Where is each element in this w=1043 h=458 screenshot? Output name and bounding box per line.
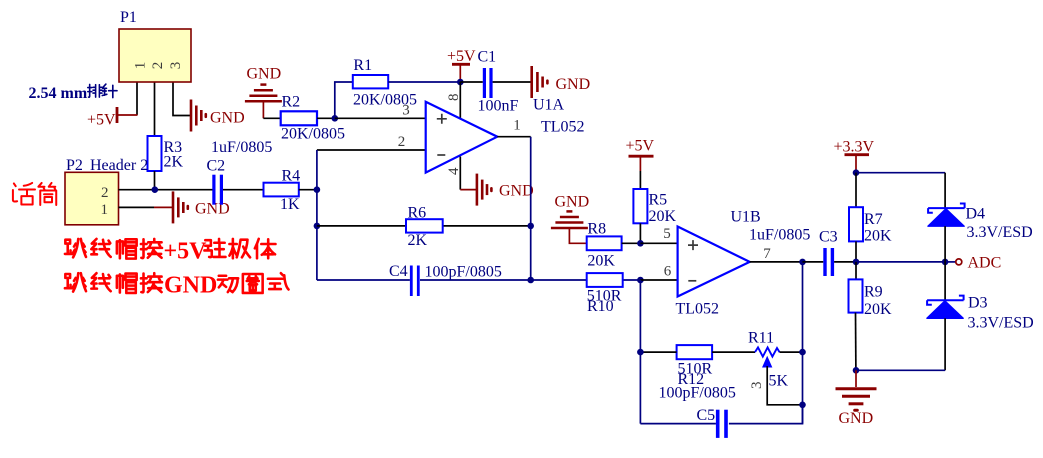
svg-text:R1: R1 [353,57,372,74]
svg-text:C5: C5 [697,407,716,424]
power +5V at U1A [447,48,476,82]
svg-text:R9: R9 [864,284,883,301]
wire pin6 [640,279,677,281]
svg-text:GND: GND [556,76,591,93]
svg-text:R7: R7 [864,211,883,228]
text red note line 2 [65,273,289,299]
node junction pin6/vertical [637,277,644,284]
svg-text:P2: P2 [66,157,83,174]
resistor R9 [849,279,893,318]
node junction R5/R8/pin5 [637,240,644,247]
wire R1 right to +5V node [388,81,460,83]
svg-text:1: 1 [513,118,521,134]
power +3.3V [834,139,875,173]
wire P1 pin3 stub [173,82,191,116]
svg-text:+5V: +5V [626,138,655,155]
svg-text:1: 1 [132,62,148,70]
svg-text:+5V: +5V [87,112,116,129]
wire D3 bottom drop [944,318,946,370]
wire R5 bottom [639,223,641,243]
wire pin1 output elbow [497,136,530,138]
capacitor C3 [749,227,838,277]
svg-text:20K: 20K [587,253,615,270]
wire +5V to R5 [639,171,641,189]
svg-text:D4: D4 [966,206,986,223]
resistor R5 [633,189,676,225]
node junction R11-right [799,349,806,356]
wire ADC row [856,261,945,263]
wire pin4 drop [459,157,461,190]
wire pin8 drop [459,82,461,119]
svg-text:GND: GND [499,183,534,200]
wire D4 bottom to ADC row [944,226,946,262]
node ADC open terminal [956,259,962,265]
svg-text:Header 2: Header 2 [90,157,148,174]
node junction ADC/D4/D3 [942,259,949,266]
svg-text:R10: R10 [587,298,614,315]
wire R12 leads [640,351,755,353]
wire C1 to GND [493,81,532,83]
wire R2 to junction [317,117,335,119]
svg-text:8: 8 [446,93,462,101]
svg-text:ADC: ADC [968,255,1002,272]
svg-text:100nF: 100nF [478,98,519,115]
svg-text:3: 3 [749,382,765,390]
connector P1 [119,9,191,82]
wire to ADC port [945,261,956,263]
wire P2 pin1 stub [119,206,155,208]
svg-text:100pF/0805: 100pF/0805 [425,263,502,280]
wire C4 row [317,279,531,281]
wire C5 row [640,405,802,424]
svg-text:GND: GND [839,410,874,427]
svg-text:2: 2 [150,62,166,70]
svg-text:R8: R8 [587,221,606,238]
node junction R3/P2.2 [152,186,159,193]
svg-text:U1A: U1A [533,97,565,114]
resistor R1 [353,57,417,109]
wiper arrow of R11 [763,357,772,367]
svg-text:+5V: +5V [164,239,208,265]
wire R11 right lead [780,351,803,353]
svg-text:R2: R2 [282,94,301,111]
wire R3 bottom to junction [154,171,156,190]
wire pin7 to C3 [803,261,824,263]
wire R7 top stub [855,173,857,208]
ground GND at P2 pin1 [154,191,230,223]
resistor R12 [659,345,736,401]
svg-text:1: 1 [101,202,109,218]
svg-text:6: 6 [664,264,672,280]
svg-text:3: 3 [402,103,410,119]
svg-text:20K: 20K [864,228,892,245]
svg-text:2: 2 [101,185,109,201]
wire R8 to pin5 junction [622,242,641,244]
wire pin7 output [750,261,803,263]
node junction C4/pin1-net [527,277,534,284]
svg-text:C3: C3 [819,229,838,246]
svg-text:GND: GND [555,194,590,211]
ground GND above R8 [551,194,589,244]
node junction wiper/C5 [799,402,806,409]
node junction ADC/R7/R9 [853,259,860,266]
svg-text:C1: C1 [478,49,497,66]
svg-text:R5: R5 [649,192,668,209]
wire R10 row [531,279,641,281]
resistor R10 [587,273,623,315]
wire D4 top drop [944,173,946,208]
svg-text:20K: 20K [649,208,677,225]
svg-text:2.54 mm: 2.54 mm [29,85,88,102]
wire R6 row [317,225,531,227]
node junction R9/GND [853,367,860,374]
svg-text:20K: 20K [864,301,892,318]
resistor R6 [406,205,443,250]
text red note line 1 [65,239,276,265]
wire vertical net left [316,150,318,280]
diode D4 (zener 3.3V ESD) [928,204,1033,242]
wire GND stem to R2 [263,117,280,119]
svg-text:2K: 2K [408,232,428,249]
op-amp U1A [398,93,585,175]
node junction R6-left/vertical [314,223,321,230]
svg-text:R6: R6 [408,205,427,222]
svg-text:GND: GND [210,110,245,127]
wire P2 pin2 row to C2 [119,189,214,191]
capacitor C5 [697,407,728,438]
wire R1 left elbow [335,82,353,118]
svg-text:C2: C2 [207,158,226,175]
power +5V at R5 [626,138,655,172]
node junction R6-right/vertical [527,223,534,230]
potentiometer R11 [748,330,789,390]
svg-text:GND: GND [247,66,282,83]
wire ADC node to D3 [944,262,946,300]
svg-text:D3: D3 [968,295,988,312]
ground GND above R2 [245,66,282,119]
wire R4 to vertical net [299,189,317,191]
node junction pin7/C3 [799,259,806,266]
capacitor C4 [389,263,502,296]
node junction R4/vertical [314,186,321,193]
resistor R4 [264,168,301,214]
svg-text:P1: P1 [120,9,137,26]
ground GND at U1A pin4 [460,174,533,206]
resistor R7 [849,207,892,244]
svg-text:1uF/0805: 1uF/0805 [749,227,810,244]
wire bottom right row [856,369,945,371]
svg-text:U1B: U1B [731,209,761,226]
ground GND bottom right [836,370,877,427]
power +5V at P1 [87,107,138,129]
op-amp U1B [663,209,771,318]
wire wiper drop [767,366,802,405]
svg-text:TL052: TL052 [676,301,720,318]
ground GND at P1 pin3 [191,100,245,132]
wire pin5 [640,242,677,244]
svg-text:100pF/0805: 100pF/0805 [659,385,736,402]
svg-text:+5V: +5V [447,48,476,65]
node junction R12-left [637,349,644,356]
capacitor C2 [207,139,273,205]
svg-text:20K/0805: 20K/0805 [281,126,345,143]
svg-text:3.3V/ESD: 3.3V/ESD [967,224,1033,241]
connector P2 [65,157,148,225]
wire vertical net pin7 down [802,262,804,424]
diode D3 (zener 3.3V ESD) [927,295,1034,332]
wire R7 bottom stub [855,241,857,262]
wire top right row [856,172,945,174]
svg-text:5: 5 [663,226,671,242]
resistor R8 [587,221,622,270]
label 2.54 mm PaiZhen [29,84,118,102]
node junction +3.3V/R7 [853,169,860,176]
wire vertical net pin6 down [639,280,641,424]
svg-text:3.3V/ESD: 3.3V/ESD [968,315,1034,332]
wire C3 to ADC net [834,261,856,263]
wire pin2 run [317,149,426,151]
label HuaTong (microphone) [13,183,56,205]
svg-text:5K: 5K [769,373,789,390]
svg-text:TL052: TL052 [541,119,585,136]
wire C2 to R4 [223,189,264,191]
svg-text:C4: C4 [389,263,408,280]
svg-text:R4: R4 [282,168,301,185]
wire pin3 run [335,117,426,119]
svg-text:3: 3 [168,62,184,70]
wire R9 bottom stub [855,313,857,371]
svg-text:GND: GND [164,273,217,299]
ground GND at C1 [532,66,590,98]
node junction +5V/C1/pin8 [457,79,464,86]
svg-text:1K: 1K [280,196,300,213]
svg-text:1uF/0805: 1uF/0805 [211,139,272,156]
svg-text:+3.3V: +3.3V [834,139,875,156]
svg-text:2K: 2K [164,154,184,171]
wire vertical net pin1 [530,137,532,280]
svg-text:7: 7 [763,246,771,262]
capacitor C1 [478,49,519,115]
node junction R2/R1/pin3 [332,115,339,122]
resistor R3 [148,136,184,171]
wire P1 pin1 stub [136,82,138,115]
wire R9 top stub [855,262,857,280]
svg-text:2: 2 [398,134,406,150]
wire P1 pin2 stub [154,82,156,136]
resistor R2 [281,94,345,143]
wire +5V node to C1 [460,81,483,83]
svg-text:R11: R11 [748,330,774,347]
